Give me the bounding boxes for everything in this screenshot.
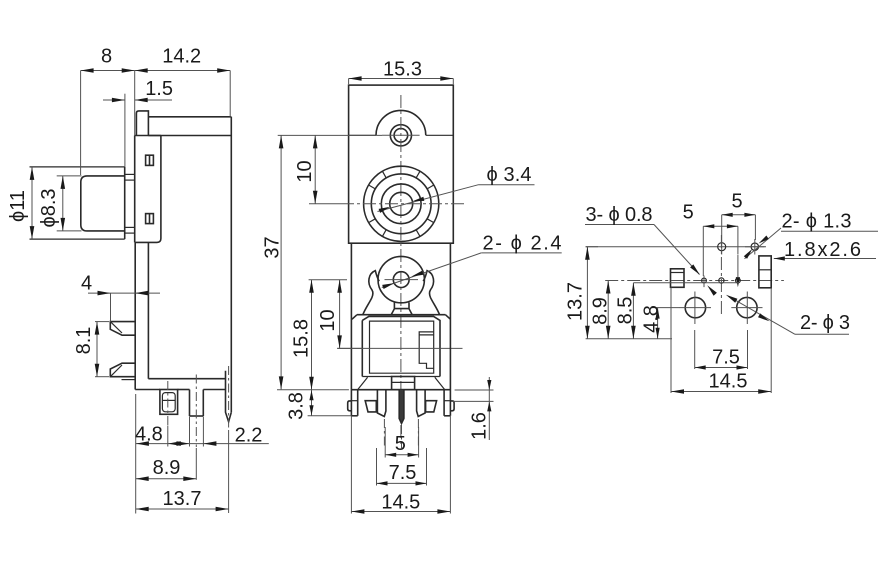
dim phi8.3 xyxy=(38,176,65,231)
front view: right ear flange xyxy=(423,271,439,315)
svg-text:8.9: 8.9 xyxy=(590,297,612,325)
front view: right bottom hook xyxy=(426,401,437,412)
pcb layout: pin hole phi0.8 left xyxy=(702,276,707,288)
side view: upper snap hook xyxy=(110,322,135,336)
front view: knurled nut circle outer xyxy=(364,166,439,241)
dim 4 (hook protrusion) xyxy=(81,273,160,322)
pcb layout: pin hole phi0.8 right xyxy=(736,255,741,288)
front view: left leg xyxy=(348,390,358,416)
pcb layout: slot 1.8x2.6 right xyxy=(759,256,771,288)
dim 4.8 / 2.2 (pin positions) xyxy=(135,394,269,514)
front view: inner latch step right xyxy=(419,332,434,368)
dim 7.5 (front) xyxy=(377,448,427,486)
pcb layout: hole 2-phi3 right xyxy=(731,292,762,325)
leader 3-phi0.8 xyxy=(585,204,717,296)
svg-text:10: 10 xyxy=(317,309,339,331)
side view: leg below plate xyxy=(135,242,148,389)
leader 2-phi2.4 xyxy=(382,233,562,289)
front view: left ear flange xyxy=(363,271,379,315)
svg-text:1.6: 1.6 xyxy=(469,412,491,440)
side view: body right edge xyxy=(230,117,232,413)
dim 10 (hole spacing upper) xyxy=(294,135,341,203)
front view: horizontal reference line through housing xyxy=(337,347,462,349)
dim 5 (pcb left) xyxy=(683,202,738,277)
pcb layout: top row centerline xyxy=(586,246,766,248)
svg-text:3- ϕ 0.8: 3- ϕ 0.8 xyxy=(586,204,653,226)
front view: switch housing inner shading line xyxy=(0,0,1,1)
front view: switch housing inner box xyxy=(370,321,434,373)
front view: jack bore circle phi3.4 xyxy=(390,192,413,215)
dim 8.1 (hook span) xyxy=(73,322,109,377)
svg-text:15.8: 15.8 xyxy=(291,319,313,358)
side view: rear pin centerline xyxy=(228,366,230,428)
svg-text:2.2: 2.2 xyxy=(235,424,263,446)
dim 10 (lower) xyxy=(317,280,362,349)
leader 2-phi3 xyxy=(726,295,850,335)
side view: PCB pad pin (pin 1) xyxy=(160,390,178,415)
dim 14.5 (front) xyxy=(351,416,450,514)
side view: hook base line xyxy=(122,379,136,381)
front view: left pin centerline xyxy=(383,419,385,447)
side view: plate latch window lower xyxy=(146,214,154,224)
side view: barrel outer bottom line (phi11 lower extension) xyxy=(30,238,125,240)
dim 15.8 xyxy=(291,280,348,390)
front view: vertical centerline xyxy=(400,95,402,447)
pcb layout: vertical centerline xyxy=(720,235,722,315)
front view: mounting hole outer xyxy=(390,125,411,146)
dim 13.7 (pcb) xyxy=(565,247,599,339)
side view: middle pin xyxy=(190,390,204,417)
svg-text:ϕ11: ϕ11 xyxy=(7,190,29,222)
front view: mounting hole crosshair xyxy=(382,134,420,136)
svg-text:13.7: 13.7 xyxy=(163,488,202,510)
svg-text:10: 10 xyxy=(294,160,316,182)
front view: left bottom hook xyxy=(365,401,376,412)
svg-text:14.2: 14.2 xyxy=(162,46,201,68)
dim 8.9 xyxy=(136,448,197,481)
svg-text:4.8: 4.8 xyxy=(641,305,663,333)
pcb layout: middle row centerline xyxy=(605,280,784,282)
front view: body side walls xyxy=(351,243,450,416)
front view: right pin centerline xyxy=(417,419,419,447)
dim 15.3 (front width) xyxy=(349,58,454,84)
front view: nut horizontal centerline xyxy=(341,203,466,205)
svg-text:8.5: 8.5 xyxy=(615,297,637,325)
dim 7.5 (pcb) xyxy=(695,330,748,370)
front view: bottom chamfers and band xyxy=(358,377,445,390)
front view: neck below lower boss xyxy=(391,302,412,314)
side view: barrel step ticks xyxy=(125,174,135,233)
front view: body bottom edge xyxy=(351,389,450,391)
dim 8.9 (pcb) xyxy=(590,281,612,339)
side view: mounting tab (cap) xyxy=(136,111,148,136)
svg-text:ϕ 3.4: ϕ 3.4 xyxy=(487,164,532,186)
front view: switch housing outline xyxy=(352,315,451,377)
svg-text:4: 4 xyxy=(81,273,92,295)
leader phi3.4 xyxy=(378,164,535,213)
front view: hole 2-phi2.4 xyxy=(393,272,409,288)
side view: barrel outer top line (phi11 upper extension) xyxy=(30,166,125,168)
leader 1.8x2.6 xyxy=(774,239,876,261)
front view: knurled nut circle 2 xyxy=(371,174,431,234)
dim 8 (top left) xyxy=(81,46,135,176)
svg-text:8.1: 8.1 xyxy=(73,327,95,355)
dim 4.8 (pcb) xyxy=(641,305,681,339)
svg-text:8.9: 8.9 xyxy=(153,457,181,479)
dim 1.5 xyxy=(103,78,173,167)
side view: rear pin with pointed tip xyxy=(226,371,232,422)
svg-text:2- ϕ 1.3: 2- ϕ 1.3 xyxy=(782,211,852,233)
front view: face plate outline xyxy=(349,85,454,243)
dim phi11 xyxy=(7,167,34,239)
dim 1.6 (foot height) xyxy=(452,377,494,440)
dim 13.7 (side view) xyxy=(136,430,229,513)
pcb layout: slot 1.8x2.6 left xyxy=(671,269,685,288)
svg-text:5: 5 xyxy=(683,202,694,224)
dim 5 (pin span) xyxy=(385,427,418,458)
side view: plate latch window upper xyxy=(146,155,154,165)
svg-text:14.5: 14.5 xyxy=(381,491,420,513)
side view: bore phi8.3 outline xyxy=(57,176,125,231)
pcb layout: bottom edge line xyxy=(586,338,672,340)
dim 14.2 (top) xyxy=(135,46,231,136)
front view: mounting boss dome xyxy=(349,110,454,135)
svg-text:2- ϕ 3: 2- ϕ 3 xyxy=(800,312,850,334)
front view: center solder pin xyxy=(399,390,404,424)
front view: center pin centerline xyxy=(401,425,403,448)
front view: lower boss circle xyxy=(378,256,424,302)
svg-text:4.8: 4.8 xyxy=(135,423,163,445)
side view: lower snap hook xyxy=(110,363,135,377)
svg-text:37: 37 xyxy=(262,236,284,258)
svg-text:5: 5 xyxy=(395,433,406,455)
front view: right leg xyxy=(444,390,454,416)
side view: pin1 centerline xyxy=(167,381,169,425)
dim 5 (pcb right) xyxy=(722,191,756,241)
svg-text:7.5: 7.5 xyxy=(389,462,417,484)
front view: right solder pin xyxy=(417,390,426,417)
dim 37 (overall height) xyxy=(262,135,383,389)
front view: center pin base box xyxy=(392,377,415,390)
svg-text:14.5: 14.5 xyxy=(709,371,748,393)
dim 14.5 (pcb) xyxy=(671,288,771,394)
pcb layout: pin hole phi0.8 center xyxy=(719,278,724,283)
svg-text:1.5: 1.5 xyxy=(145,78,173,100)
pcb layout: hole phi1.3 left xyxy=(718,239,726,255)
pcb layout: hole 2-phi3 left xyxy=(680,292,711,325)
leader 2-phi1.3 xyxy=(744,211,878,259)
svg-text:ϕ8.3: ϕ8.3 xyxy=(38,188,60,227)
front view: knurl tick marks xyxy=(369,171,434,236)
front view: left solder pin xyxy=(377,390,386,417)
svg-text:5: 5 xyxy=(731,191,742,213)
svg-text:15.3: 15.3 xyxy=(383,58,422,80)
front view: lower hole crosshair xyxy=(385,279,419,281)
side view: face plate xyxy=(135,136,161,243)
pcb layout: hole phi1.3 right xyxy=(745,239,765,255)
side view: barrel front face xyxy=(124,167,126,239)
side view: middle pin centerline xyxy=(195,375,197,448)
svg-text:13.7: 13.7 xyxy=(565,282,587,321)
svg-text:3.8: 3.8 xyxy=(286,392,308,420)
dim 8.5 (pcb) xyxy=(615,283,740,339)
svg-text:7.5: 7.5 xyxy=(712,347,740,369)
svg-text:8: 8 xyxy=(101,46,112,68)
front view: knurled nut circle 3 xyxy=(381,184,421,224)
side view: body top arm xyxy=(148,117,231,136)
dim 3.8 (leg height) xyxy=(286,390,352,420)
front view: mounting hole inner xyxy=(394,129,408,143)
side view: body bottom lines xyxy=(135,379,226,390)
